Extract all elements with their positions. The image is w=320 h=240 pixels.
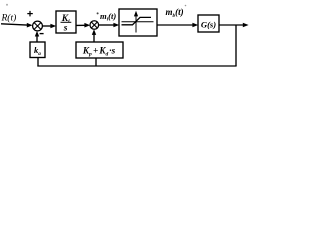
wire ka block up to summing junction 1: [36, 34, 38, 42]
block G(s) plant: [198, 15, 219, 32]
wire bottom run up into ka block: [37, 58, 39, 67]
speck (scan noise): [185, 5, 187, 7]
wire input to summing junction 1: [1, 24, 27, 25]
wire feedback branch down from output: [235, 25, 237, 66]
svg-text:R(t): R(t): [1, 12, 17, 23]
summing junction 2: [90, 21, 99, 30]
summing junction 1: [33, 21, 43, 31]
saturation horizontal axis: [122, 21, 154, 23]
block Ki/s integrator: [56, 11, 76, 33]
wire junction 1 to integrator block: [42, 25, 51, 27]
speck (scan noise): [97, 12, 99, 14]
svg-text:mi(t): mi(t): [100, 11, 116, 23]
minus sign at summing junction 1: [40, 33, 44, 35]
wire G(s) to output: [219, 24, 243, 26]
saturation nonlinearity block: [119, 9, 157, 36]
svg-text:mb(t): mb(t): [166, 7, 184, 19]
saturation vertical axis: [135, 15, 137, 33]
wire saturation block to G(s): [157, 24, 193, 26]
wire Kp+Kd*s block up to summing junction 2: [93, 33, 95, 43]
svg-text:G(s): G(s): [201, 19, 216, 29]
plus sign at summing junction 1: [27, 11, 33, 17]
wire bottom run up into Kp+Kd*s block: [95, 58, 97, 67]
svg-text:Kp+Kd·s: Kp+Kd·s: [82, 46, 116, 58]
wire junction 2 to saturation block: [99, 24, 115, 26]
saturation curve: [122, 17, 152, 24]
speck (scan noise): [6, 4, 8, 6]
wire feedback bottom run: [37, 65, 236, 67]
wire integrator to summing junction 2: [76, 24, 85, 26]
block ka feedback gain: [30, 42, 45, 58]
block Kp+Kd*s feedback: [76, 42, 123, 58]
svg-text:s: s: [63, 24, 68, 34]
